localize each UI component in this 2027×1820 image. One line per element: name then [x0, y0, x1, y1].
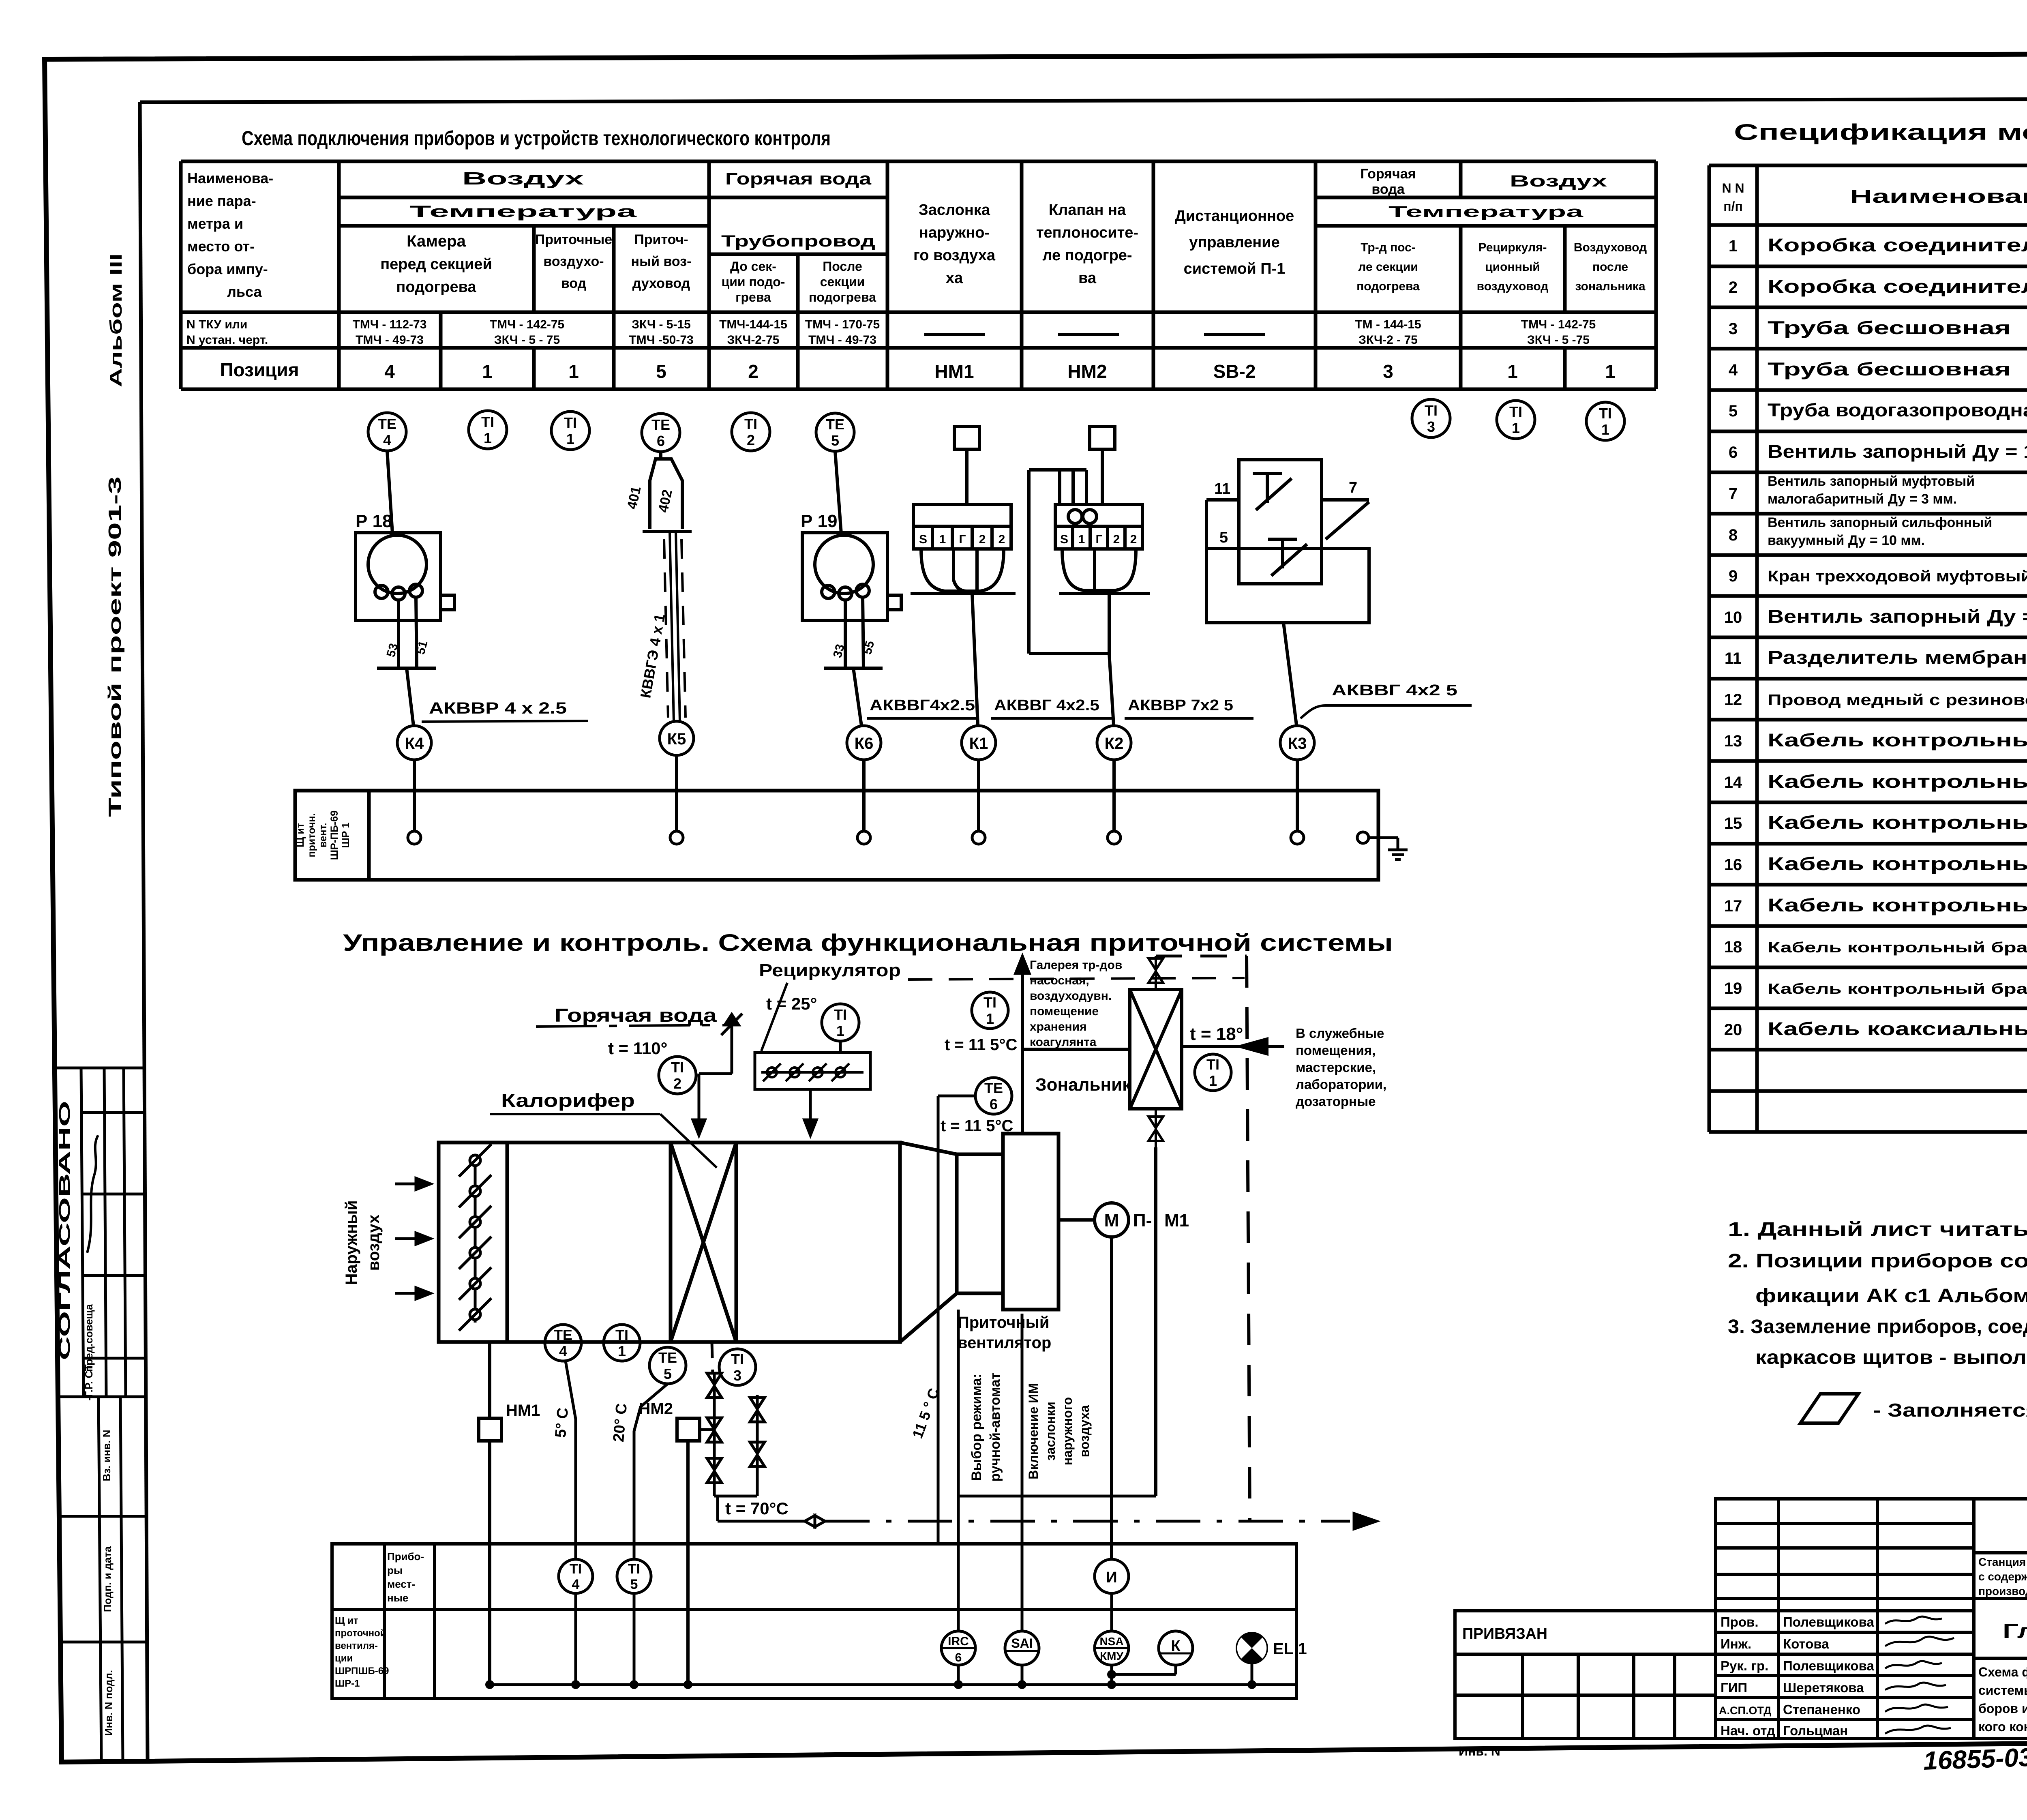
svg-text:3: 3 [1729, 320, 1738, 338]
svg-text:Воздух: Воздух [1510, 172, 1607, 190]
svg-text:воздухо-: воздухо- [543, 254, 604, 269]
zonal heater bottom valves [1148, 1109, 1163, 1147]
svg-text:вентиля-: вентиля- [335, 1640, 378, 1651]
recirculator box [755, 1053, 870, 1089]
svg-text:ТМЧ - 49-73: ТМЧ - 49-73 [808, 333, 876, 347]
svg-text:TI: TI [615, 1327, 628, 1343]
svg-text:1: 1 [1605, 361, 1616, 382]
panel instrument К [1159, 1631, 1193, 1665]
svg-text:Главный корпус: Главный корпус [2003, 1620, 2027, 1642]
svg-text:- Заполняется при привязке: - Заполняется при привязке проекта [1873, 1400, 2027, 1421]
sensor TE4 on duct [545, 1325, 581, 1361]
svg-text:ШР 1: ШР 1 [340, 823, 351, 848]
svg-text:К2: К2 [1105, 735, 1124, 752]
svg-text:ции: ции [335, 1653, 353, 1664]
svg-text:14: 14 [1724, 774, 1742, 791]
svg-text:В служебные: В служебные [1296, 1026, 1384, 1041]
svg-text:Дистанционное: Дистанционное [1175, 208, 1294, 225]
svg-text:мастерские,: мастерские, [1296, 1060, 1376, 1075]
svg-text:НМ2: НМ2 [639, 1400, 673, 1418]
svg-text:4: 4 [559, 1343, 567, 1359]
svg-text:ручной-автомат: ручной-автомат [988, 1373, 1003, 1482]
svg-text:1: 1 [1078, 533, 1085, 546]
svg-text:TI: TI [481, 414, 494, 430]
svg-text:М: М [1104, 1211, 1119, 1230]
svg-text:2: 2 [979, 533, 986, 546]
bus label text [295, 810, 351, 860]
svg-text:t = 18°: t = 18° [1190, 1024, 1243, 1044]
svg-text:TE: TE [378, 416, 396, 432]
svg-text:7: 7 [1729, 485, 1738, 503]
svg-text:НМ2: НМ2 [1067, 361, 1107, 382]
transmitter P19 [802, 533, 901, 726]
svg-text:17: 17 [1724, 897, 1742, 915]
sheet description [1978, 1665, 2027, 1734]
svg-text:системы П-1 .Подключение при-: системы П-1 .Подключение при- [1978, 1683, 2027, 1698]
svg-text:55: 55 [861, 639, 877, 656]
svg-text:Температура: Температура [409, 203, 637, 221]
actuator HM2 [677, 1418, 700, 1441]
svg-text:5: 5 [831, 432, 839, 449]
svg-text:3: 3 [733, 1367, 741, 1384]
svg-text:ва: ва [1078, 270, 1097, 287]
TKU row dashes [924, 333, 1265, 336]
svg-text:1: 1 [618, 1343, 626, 1359]
svg-text:Вентиль запорный муфтовый: Вентиль запорный муфтовый [1768, 474, 1975, 489]
svg-text:N N: N N [1722, 181, 1744, 195]
sensor TI1 a [469, 411, 507, 449]
branch to zonal heater [1022, 1048, 1130, 1051]
junction K4 [397, 726, 431, 760]
control panel box [332, 1544, 1296, 1698]
svg-text:Вентиль запорный Ду = 15мм: Вентиль запорный Ду = 15мм [1768, 606, 2027, 627]
svg-text:Рук. гр.: Рук. гр. [1721, 1658, 1768, 1673]
zonal heater top valves [1148, 956, 1163, 990]
svg-text:каркасов щитов - выполнить с: каркасов щитов - выполнить согласно ПУЭ … [1755, 1347, 2027, 1368]
svg-text:Кабель контрольный: Кабель контрольный [1768, 895, 2027, 915]
wire TI1 to recirculator [839, 1041, 842, 1053]
transmitter P18 [356, 533, 454, 726]
svg-text:SВ-2: SВ-2 [1213, 361, 1256, 382]
svg-text:воздуходувн.: воздуходувн. [1030, 989, 1112, 1003]
svg-text:5: 5 [656, 361, 666, 382]
svg-text:11: 11 [1725, 650, 1742, 667]
IM2 terminal labels [1060, 533, 1137, 546]
svg-text:ры: ры [387, 1564, 403, 1576]
svg-text:-Г.Р. СТ: -Г.Р. СТ [83, 1364, 95, 1400]
svg-text:Г: Г [1095, 533, 1102, 546]
svg-text:ха: ха [946, 270, 963, 287]
wire TE5 to TI5 [634, 1384, 668, 1559]
svg-text:Вентиль запорный сильфонный: Вентиль запорный сильфонный [1768, 515, 1992, 530]
svg-text:1: 1 [566, 431, 574, 447]
svg-text:IRC: IRC [948, 1635, 969, 1648]
svg-text:Калорифер: Калорифер [501, 1090, 635, 1111]
sensor TE5 [816, 413, 854, 451]
svg-text:Схема функциональная приточной: Схема функциональная приточной [1978, 1665, 2027, 1679]
svg-text:насосная,: насосная, [1030, 974, 1089, 987]
svg-text:Горячая: Горячая [1361, 166, 1416, 182]
svg-text:КВВГЭ 4 х 1: КВВГЭ 4 х 1 [637, 613, 668, 699]
svg-text:5° С: 5° С [552, 1407, 572, 1438]
svg-text:6: 6 [1729, 444, 1738, 461]
leader to recirculator [761, 983, 787, 1051]
svg-text:Схема подключения приборов и у: Схема подключения приборов и устройств т… [242, 127, 831, 150]
svg-text:Зональник: Зональник [1035, 1075, 1131, 1095]
svg-text:2: 2 [1113, 533, 1120, 546]
svg-text:Подп. и дата: Подп. и дата [101, 1546, 114, 1612]
svg-text:лаборатории,: лаборатории, [1296, 1077, 1386, 1092]
svg-text:TI: TI [564, 414, 577, 431]
svg-text:ЗКЧ - 5 - 75: ЗКЧ - 5 - 75 [494, 333, 560, 347]
spec rows: names [1768, 235, 2027, 1039]
svg-text:боров и устройств технологичес: боров и устройств технологичес- [1978, 1701, 2027, 1716]
svg-text:16855-03: 16855-03 [1923, 1743, 2027, 1775]
svg-text:К5: К5 [667, 730, 686, 748]
junction K3 [1280, 726, 1314, 760]
svg-text:производительностью 20тыс м³/с: производительностью 20тыс м³/сутки(с вих… [1978, 1585, 2027, 1597]
svg-text:дозаторные: дозаторные [1296, 1094, 1376, 1109]
svg-text:СОГЛАСОВАНО: СОГЛАСОВАНО [56, 1101, 73, 1360]
sensor TI1 riser [972, 992, 1008, 1029]
svg-text:ТМЧ - 170-75: ТМЧ - 170-75 [805, 318, 880, 331]
panel label Приборы местные [387, 1550, 424, 1604]
sensor TI1 right [1497, 401, 1535, 439]
svg-text:TE: TE [826, 416, 844, 433]
svg-text:2: 2 [747, 432, 755, 448]
svg-text:После: После [823, 259, 862, 274]
svg-text:t = 11 5°С: t = 11 5°С [941, 1117, 1013, 1135]
svg-text:помещение: помещение [1030, 1005, 1099, 1018]
svg-text:заслонки: заслонки [1043, 1402, 1058, 1461]
svg-text:кого контроля Спецификация: кого контроля Спецификация [1978, 1719, 2027, 1734]
TKU row texts [186, 318, 1596, 347]
svg-text:18: 18 [1724, 938, 1742, 956]
svg-text:приточн.: приточн. [306, 813, 317, 857]
svg-text:Инв. N°: Инв. N° [1459, 1744, 1506, 1758]
svg-text:зональника: зональника [1575, 280, 1645, 293]
svg-text:Температура: Температура [1388, 204, 1584, 221]
wire HM2 down [686, 1441, 690, 1685]
sensor TI3 right [1412, 399, 1450, 437]
sensor TE4 [368, 413, 406, 451]
svg-text:Рециркулятор: Рециркулятор [759, 960, 901, 980]
svg-text:го воздуха: го воздуха [913, 247, 996, 264]
junction K2 [1097, 726, 1131, 760]
svg-text:мест-: мест- [387, 1578, 415, 1590]
svg-text:секции: секции [820, 274, 865, 289]
svg-text:N устан. черт.: N устан. черт. [186, 333, 268, 347]
svg-text:4: 4 [384, 361, 395, 382]
panel internal wires [490, 1593, 1296, 1685]
zonal heater drop wire [1154, 1147, 1157, 1496]
svg-text:управление: управление [1189, 234, 1280, 251]
svg-text:5: 5 [1219, 529, 1228, 546]
svg-text:ТМЧ - 142-75: ТМЧ - 142-75 [490, 318, 564, 331]
air handling unit duct [439, 1134, 1058, 1342]
svg-text:Спецификация монтажных матер: Спецификация монтажных материалов [1734, 119, 2027, 145]
spec table header [1722, 177, 2027, 218]
svg-text:SAI: SAI [1011, 1636, 1033, 1651]
svg-text:1: 1 [482, 361, 493, 382]
wire HM1 down [488, 1441, 491, 1685]
sensor TE6 func [975, 1078, 1012, 1114]
svg-text:АКВВГ 4х2.5: АКВВГ 4х2.5 [994, 697, 1099, 714]
svg-text:АКВВГ4х2.5: АКВВГ4х2.5 [870, 697, 975, 714]
title block grid [1716, 1499, 2027, 1739]
svg-text:К6: К6 [855, 735, 874, 752]
indicator lamp EL1 [1236, 1632, 1307, 1664]
svg-text:1: 1 [484, 430, 492, 446]
svg-text:1: 1 [1729, 237, 1738, 255]
notes list [1728, 1219, 2027, 1368]
junction K5 [660, 721, 694, 755]
sensor TE6 [642, 414, 680, 452]
sensor TI2 [732, 413, 770, 451]
panel instrument IRC6 [941, 1631, 975, 1665]
heater control valve group [707, 1373, 765, 1521]
svg-text:Кабель контрольный бранирова: Кабель контрольный бранированный [1768, 980, 2027, 997]
sensor TE5 below duct [649, 1347, 686, 1384]
sensor TI3 below duct [719, 1349, 756, 1385]
svg-text:TE: TE [658, 1349, 677, 1366]
svg-text:ШР-1: ШР-1 [335, 1678, 360, 1689]
hot water valve [693, 1014, 742, 1135]
svg-text:t = 25°: t = 25° [766, 994, 817, 1013]
svg-text:Горячая вода: Горячая вода [725, 169, 872, 188]
svg-text:13: 13 [1724, 732, 1742, 750]
bus terminal circles [408, 831, 1369, 844]
svg-text:TI: TI [834, 1006, 847, 1023]
svg-text:НМ1: НМ1 [934, 361, 974, 382]
inner drawing frame left line [140, 102, 148, 1761]
pressure switch block [1206, 460, 1369, 725]
wire TE4 to TI4 [566, 1361, 576, 1559]
position row texts [220, 359, 1615, 382]
svg-text:TI: TI [1425, 402, 1438, 419]
svg-text:TI: TI [744, 416, 757, 432]
svg-text:льса: льса [227, 283, 262, 300]
svg-text:TI: TI [1599, 405, 1612, 422]
svg-text:Кабель контрольный: Кабель контрольный [1768, 771, 2027, 792]
svg-text:1: 1 [986, 1010, 994, 1027]
svg-text:S: S [919, 533, 927, 546]
motor wire down [1110, 1237, 1113, 1559]
svg-text:402: 402 [656, 488, 675, 514]
svg-text:И: И [1106, 1569, 1117, 1586]
svg-text:Альбом III: Альбом III [106, 253, 125, 387]
actuator HM1 [479, 1418, 501, 1441]
junction K1 [962, 726, 996, 760]
legend parallelogram [1800, 1394, 1858, 1423]
svg-text:S: S [1060, 533, 1068, 546]
svg-text:ПРИВЯЗАН: ПРИВЯЗАН [1462, 1625, 1547, 1642]
supply air riser [1016, 957, 1029, 1134]
svg-text:1: 1 [1209, 1072, 1217, 1089]
svg-text:4: 4 [383, 432, 391, 448]
svg-text:вент.: вент. [317, 823, 329, 847]
svg-text:Кран трехходовой муфтовый Ду: Кран трехходовой муфтовый Ду = 15 мм [1768, 568, 2027, 585]
svg-text:Труба водогазопроводная: Труба водогазопроводная [1768, 400, 2027, 420]
panel instrument NSA КМУ [1095, 1631, 1129, 1665]
svg-text:N ТКУ или: N ТКУ или [186, 318, 247, 331]
handwritten signatures [1885, 1616, 1954, 1734]
privyazan table [1455, 1611, 1716, 1739]
wire recirculator to duct [804, 1089, 816, 1135]
svg-text:Инв. N подл.: Инв. N подл. [103, 1670, 115, 1736]
wire TE6 channel down [937, 1154, 940, 1544]
svg-text:грева: грева [735, 290, 771, 304]
sensor TI1 on duct [604, 1325, 640, 1361]
svg-text:Кабель контрольный: Кабель контрольный [1768, 853, 2027, 874]
svg-text:12: 12 [1724, 691, 1742, 709]
svg-text:ЗКЧ - 5 -75: ЗКЧ - 5 -75 [1527, 333, 1590, 347]
filter damper wire down [488, 1342, 491, 1418]
svg-text:после: после [1592, 260, 1628, 274]
svg-text:АКВВГ 4х2 5: АКВВГ 4х2 5 [1332, 682, 1457, 699]
svg-text:9: 9 [1729, 567, 1738, 585]
svg-text:пред.совеща: пред.совеща [83, 1304, 95, 1372]
svg-text:Тр-д пос-: Тр-д пос- [1361, 241, 1416, 254]
svg-text:КМУ: КМУ [1100, 1650, 1123, 1662]
svg-text:ле секции: ле секции [1358, 260, 1418, 274]
approval stamp table (left strip) [56, 1068, 146, 1762]
svg-text:ШР-ПБ-69: ШР-ПБ-69 [329, 810, 340, 860]
wire TE4 to P18 [387, 451, 392, 534]
svg-text:наружно-: наружно- [919, 224, 990, 241]
inner drawing frame top line [140, 99, 2027, 102]
destination note text [1296, 1026, 1386, 1109]
svg-text:подогрева: подогрева [1356, 280, 1420, 293]
panel instrument И [1095, 1559, 1129, 1593]
svg-text:Котова: Котова [1783, 1636, 1829, 1651]
svg-text:До сек-: До сек- [730, 259, 776, 274]
spec rows: numbers [1724, 237, 1742, 1039]
svg-text:Щ ит: Щ ит [335, 1615, 358, 1626]
wire HM2 to valve group [700, 1428, 714, 1431]
svg-text:метра и: метра и [187, 215, 243, 232]
filter louvre blades [459, 1144, 491, 1331]
svg-text:подогрева: подогрева [809, 290, 876, 304]
svg-text:1: 1 [1601, 421, 1609, 438]
svg-text:Приточ-: Приточ- [634, 232, 688, 247]
signature names [1783, 1614, 1874, 1738]
svg-text:НМ1: НМ1 [506, 1402, 540, 1419]
svg-text:19: 19 [1724, 980, 1742, 997]
connection table grid [181, 161, 1656, 389]
svg-text:8: 8 [1729, 526, 1738, 544]
sensor TI1 b [551, 412, 589, 450]
sensor TI1 far right [1586, 402, 1624, 440]
fan motor M [1095, 1203, 1129, 1237]
panel instrument SAI [1005, 1631, 1039, 1665]
wire K5 to bus [675, 755, 678, 831]
svg-text:ТМЧ - 49-73: ТМЧ - 49-73 [356, 333, 424, 347]
svg-text:1: 1 [568, 361, 579, 382]
svg-text:ЗКЧ - 5-15: ЗКЧ - 5-15 [632, 318, 691, 331]
svg-text:Провод медный с резиновой из: Провод медный с резиновой изоляцией [1768, 692, 2027, 709]
svg-text:3. Заземление приборов, сое: 3. Заземление приборов, соединительных к… [1728, 1316, 2027, 1338]
IM1 terminal labels [919, 533, 1005, 546]
svg-text:1: 1 [1507, 361, 1518, 382]
svg-text:А.СП.ОТД: А.СП.ОТД [1719, 1704, 1771, 1717]
svg-text:воздуховод: воздуховод [1477, 280, 1549, 293]
svg-text:TI: TI [1509, 403, 1522, 420]
svg-text:Вентиль запорный Ду = 10 мм: Вентиль запорный Ду = 10 мм [1768, 441, 2027, 462]
svg-text:Степаненко: Степаненко [1783, 1702, 1860, 1717]
svg-text:TE: TE [554, 1327, 572, 1343]
svg-text:воздуха: воздуха [1077, 1405, 1092, 1457]
svg-text:Воздуховод: Воздуховод [1574, 241, 1647, 254]
svg-text:7: 7 [1349, 479, 1357, 496]
svg-text:Вз. инв. N: Вз. инв. N [101, 1430, 113, 1481]
svg-text:TI: TI [671, 1059, 684, 1076]
svg-text:М1: М1 [1164, 1211, 1189, 1230]
svg-text:Камера: Камера [407, 232, 466, 250]
panel instrument TI4 [559, 1559, 593, 1593]
svg-text:3: 3 [1383, 361, 1393, 382]
svg-text:1. Данный лист читать совмес: 1. Данный лист читать совместно с листом… [1728, 1219, 2027, 1240]
svg-text:Позиция: Позиция [220, 359, 299, 380]
svg-text:ле подогре-: ле подогре- [1042, 247, 1132, 264]
svg-text:Наименова-: Наименова- [187, 170, 273, 187]
svg-text:коагулянта: коагулянта [1030, 1035, 1097, 1049]
compensating cable pair to K5 [664, 532, 686, 721]
svg-text:место от-: место от- [187, 238, 255, 255]
svg-text:Выбор режима:: Выбор режима: [969, 1374, 984, 1481]
svg-text:Трубопровод: Трубопровод [721, 232, 875, 250]
svg-text:Включение ИМ: Включение ИМ [1026, 1383, 1041, 1479]
damper actuator IM2 [1029, 427, 1150, 725]
svg-text:малогабаритный Ду = 3 мм.: малогабаритный Ду = 3 мм. [1768, 491, 1957, 507]
svg-text:t = 11 5°С: t = 11 5°С [945, 1036, 1017, 1054]
outlet line to rooms [1182, 1039, 1284, 1054]
svg-text:2: 2 [673, 1075, 681, 1092]
svg-text:вакуумный Ду = 10 мм.: вакуумный Ду = 10 мм. [1768, 533, 1925, 548]
svg-text:АКВВР 7х2 5: АКВВР 7х2 5 [1128, 697, 1233, 714]
svg-text:АКВВР 4 х 2.5: АКВВР 4 х 2.5 [429, 699, 567, 717]
svg-text:1: 1 [939, 533, 946, 546]
svg-text:1: 1 [1512, 420, 1520, 436]
svg-text:духовод: духовод [632, 276, 690, 291]
svg-text:NSА: NSА [1099, 1635, 1123, 1648]
stamp handwritten signature [87, 1135, 98, 1253]
svg-text:хранения: хранения [1030, 1020, 1087, 1033]
svg-text:Полевщикова: Полевщикова [1783, 1614, 1874, 1629]
wire TE5 to P19 [835, 451, 841, 534]
svg-text:Полевщикова: Полевщикова [1783, 1658, 1874, 1673]
svg-text:Инж.: Инж. [1721, 1636, 1751, 1651]
wire junction dots [485, 1670, 1256, 1689]
svg-text:ЗКЧ-2 - 75: ЗКЧ-2 - 75 [1358, 333, 1418, 347]
dashed line to gallery main [1156, 955, 1247, 958]
wire K4 to panel bus [413, 760, 416, 791]
wire fan to motor [1058, 1218, 1095, 1222]
svg-text:2: 2 [1130, 533, 1137, 546]
svg-text:TI: TI [1206, 1056, 1219, 1073]
svg-text:ТМЧ - 112-73: ТМЧ - 112-73 [353, 318, 427, 331]
svg-text:К1: К1 [969, 735, 988, 752]
svg-text:Приточные: Приточные [535, 232, 612, 247]
svg-text:К3: К3 [1288, 735, 1307, 752]
svg-text:t = 110°: t = 110° [608, 1039, 667, 1058]
svg-text:ШРПШБ-69: ШРПШБ-69 [335, 1666, 389, 1676]
svg-text:6: 6 [657, 433, 665, 449]
svg-text:Нач. отд: Нач. отд [1721, 1723, 1775, 1738]
svg-text:TI: TI [731, 1351, 744, 1368]
svg-text:t = 70°С: t = 70°С [725, 1499, 789, 1518]
wire K3 to bus [1296, 760, 1299, 831]
